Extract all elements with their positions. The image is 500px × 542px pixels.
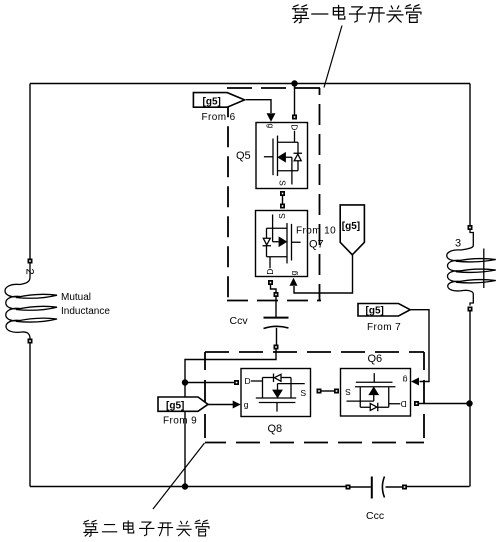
winding 2 top port [28,259,33,264]
svg-text:Ccv: Ccv [230,315,249,327]
wire From7 to Q6 gate [410,310,429,382]
arrow into Q7 gate [290,278,298,286]
port Q7 drain square [268,280,273,285]
dashed enclosure first electronic switch box [227,88,321,301]
winding 3 bottom port [468,307,473,312]
port Q7 source square [280,204,285,209]
port Q6 source square [334,389,339,394]
wire left bus to Q8 drain [185,382,234,384]
svg-text:From 9: From 9 [163,416,197,427]
svg-text:3: 3 [455,238,461,250]
wire Ccv bottom to left bus [185,350,276,485]
svg-text:Ccc: Ccc [366,510,384,522]
from tag From 6 [193,93,244,124]
svg-text:2: 2 [24,269,36,275]
leader line to second switch box [153,443,205,509]
port Q6 drain square [414,401,419,406]
port Q8 drain square [234,380,239,385]
wire Ccv top lead [275,297,277,317]
wire bottom rail left of Ccc [30,486,346,488]
port Ccc right square [402,485,407,490]
wire left rail lower [29,344,31,487]
wire Q5 source to Q7 source [282,196,284,204]
mosfet block Q5 [256,123,308,189]
junction dot top rail node [291,80,297,86]
svg-text:[g5]: [g5] [203,96,221,107]
wire right rail lower [469,312,471,487]
from tag From 7 [358,304,410,334]
from tag From 9 [158,397,208,427]
svg-text:Mutual: Mutual [61,292,91,303]
arrow into Q5 gate [267,113,276,122]
wire From10 to Q7 gate [294,254,353,293]
svg-text:Inductance: Inductance [61,306,110,317]
wire Q8 source to Q6 source [322,390,335,392]
port Q5 drain square [292,115,297,120]
svg-text:[g5]: [g5] [366,306,384,317]
inductor winding 2 (Mutual Inductance left coil) [5,264,57,339]
port Q5 source square [280,191,285,196]
wire right rail upper [469,84,471,226]
winding 2 bottom port [28,339,33,344]
capacitor Ccc [351,477,403,499]
junction dot left bus at Q8 drain [182,379,188,385]
wire from top rail down to Q5 drain [294,84,296,115]
wire From6 to Q5 gate [246,100,271,113]
wire From9 to Q8 gate [208,404,233,406]
port Ccc left square [346,485,351,490]
from tag From 10 (pointing down) [340,205,364,255]
svg-text:[g5]: [g5] [166,401,184,412]
leader line to first switch box [324,26,342,88]
mosfet block Q8 [241,369,311,417]
arrow into Q6 gate [411,378,419,386]
mosfet block Q6 [341,369,411,417]
svg-text:Q5: Q5 [236,150,251,162]
svg-text:[g5]: [g5] [342,221,360,232]
wire top rail [30,83,470,85]
port Ccv bottom square [274,345,279,350]
capacitor Ccv [264,318,289,329]
wire Q6 drain to right rail [419,403,470,405]
port Ccv top square [274,292,279,297]
mosfet block Q7 [256,211,308,277]
svg-text:From 10: From 10 [296,226,336,237]
svg-text:Q6: Q6 [368,353,383,365]
wire Q7 drain to Ccv top [271,285,277,292]
svg-text:From 6: From 6 [202,112,236,123]
junction dot right rail at Q6 drain [466,400,472,406]
winding 3 top port [468,225,473,230]
wire left rail upper [29,84,31,259]
inductor winding 3 (right coil) [447,230,496,306]
svg-text:Q8: Q8 [268,423,283,435]
junction dot bottom rail node [182,483,188,489]
svg-text:From 7: From 7 [367,322,401,333]
wire bottom rail right of Ccc [407,486,470,488]
wire Ccv bottom lead [276,328,278,345]
title second electronic switch (hand-drawn CJK strokes) [83,520,209,536]
arrow into Q8 gate [233,401,241,409]
title first electronic switch (hand-drawn CJK strokes) [292,5,420,23]
dashed enclosure second electronic switch box [205,352,424,443]
svg-text:Q7: Q7 [309,239,324,251]
port Q8 source square [317,389,322,394]
